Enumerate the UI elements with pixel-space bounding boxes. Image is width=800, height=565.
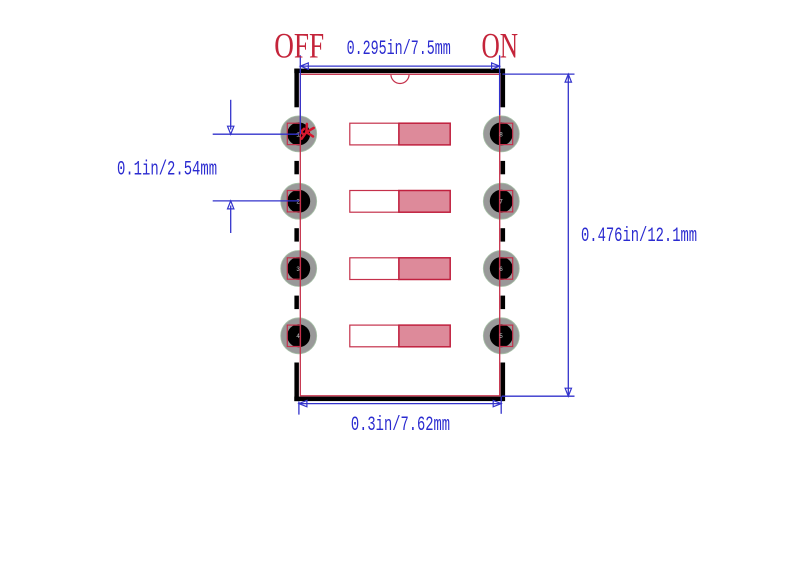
- svg-text:5: 5: [499, 333, 503, 340]
- svg-text:8: 8: [499, 131, 503, 138]
- svg-text:OFF: OFF: [274, 26, 324, 65]
- pad 3 (pin 3, left): [281, 251, 317, 287]
- dimension 0.3in/7.62mm: right extension line: [500, 397, 502, 414]
- dimension 0.1in/2.54mm: down arrowhead: [228, 126, 234, 134]
- pin 1 end notch (red half circle): [391, 74, 409, 83]
- dimension 0.476in/12.1mm: top extension line: [502, 73, 574, 75]
- body outline left edge (dashed black): [294, 69, 299, 402]
- pad 7 (pin 7, right): [483, 183, 519, 219]
- switch 1 actuator (white half): [350, 123, 399, 145]
- dimension 0.3in/7.62mm: left arrowhead: [299, 400, 307, 406]
- body outline right edge (dashed black): [501, 69, 506, 402]
- dimension 0.295in/7.5mm: right arrowhead: [492, 63, 500, 69]
- svg-text:0.476in/12.1mm: 0.476in/12.1mm: [581, 226, 697, 248]
- pad 1 (pin 1, top-left): [281, 116, 317, 152]
- switch 2 actuator (white half): [350, 191, 399, 213]
- dimension 0.1in/2.54mm: up arrowhead: [228, 201, 234, 209]
- dimension 0.3in/7.62mm: right arrowhead: [493, 400, 501, 406]
- switch 4 actuator (white half): [350, 325, 399, 347]
- svg-text:3: 3: [296, 266, 300, 273]
- pad 2 (pin 2, left): [281, 183, 317, 219]
- svg-text:6: 6: [499, 266, 503, 273]
- body outline top edge (black): [294, 69, 503, 74]
- dimension 0.295in/7.5mm: right extension line: [499, 55, 501, 115]
- svg-text:0.1in/2.54mm: 0.1in/2.54mm: [117, 159, 217, 181]
- dimension 0.1in/2.54mm: upper vertical line: [230, 100, 232, 130]
- dimension 0.476in/12.1mm: bottom arrowhead: [565, 388, 571, 396]
- svg-text:0.295in/7.5mm: 0.295in/7.5mm: [347, 39, 451, 61]
- dimension 0.1in/2.54mm: lower vertical line: [230, 206, 232, 234]
- switch 3 actuator (white half): [350, 258, 399, 280]
- switch 1 actuator (pink half): [399, 123, 450, 145]
- switch 4 actuator (pink half): [399, 325, 450, 347]
- dimension 0.476in/12.1mm: top arrowhead: [565, 74, 571, 82]
- dimension 0.1in/2.54mm: upper leader line: [213, 133, 299, 135]
- pad 5 (pin 5, bottom-right): [483, 318, 519, 354]
- pin 1 marker (red X): [301, 124, 314, 139]
- pad 8 (pin 8, top-right): [483, 116, 519, 152]
- svg-text:ON: ON: [482, 25, 519, 65]
- body outline bottom edge (black): [294, 397, 503, 402]
- dimension 0.3in/7.62mm: left extension line: [298, 402, 300, 415]
- dimension 0.476in/12.1mm: bottom extension line: [502, 395, 575, 397]
- body outline rectangle (thin red silkscreen): [300, 74, 499, 396]
- dimension 0.3in/7.62mm: dimension line: [299, 403, 501, 405]
- dimension 0.476in/12.1mm: dimension line: [567, 74, 569, 396]
- svg-text:4: 4: [296, 333, 300, 340]
- switch 3 actuator (pink half): [399, 258, 450, 280]
- dimension 0.295in/7.5mm: left arrowhead: [300, 63, 308, 69]
- svg-text:0.3in/7.62mm: 0.3in/7.62mm: [351, 415, 450, 437]
- pad 4 (pin 4, bottom-left): [281, 318, 317, 354]
- svg-text:7: 7: [499, 199, 503, 206]
- dimension 0.295in/7.5mm: dimension line: [300, 65, 499, 67]
- pad 6 (pin 6, right): [483, 251, 519, 287]
- switch 2 actuator (pink half): [399, 191, 450, 213]
- dimension 0.1in/2.54mm: lower leader line: [213, 200, 299, 202]
- svg-text:2: 2: [296, 199, 300, 206]
- dimension 0.295in/7.5mm: left extension line: [299, 55, 301, 134]
- pad pin numbers: [296, 131, 503, 340]
